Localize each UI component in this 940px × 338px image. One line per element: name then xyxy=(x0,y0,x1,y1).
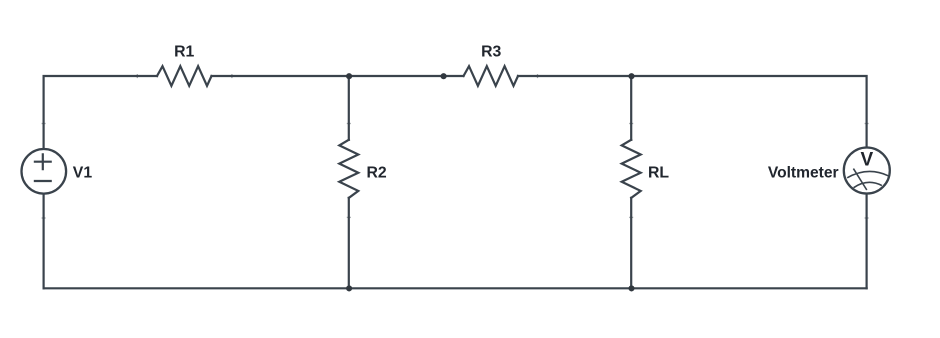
pin mark voltmeter bottom xyxy=(865,217,869,219)
voltmeter xyxy=(844,148,890,194)
node junction at RL bottom xyxy=(628,285,634,291)
svg-text:R2: R2 xyxy=(367,165,387,182)
pin mark V1 bottom xyxy=(42,217,46,219)
wire RL bottom stub xyxy=(630,198,632,288)
node junction on wire before R3 xyxy=(441,73,447,79)
svg-text:RL: RL xyxy=(648,165,669,182)
wire from R3 to voltmeter top xyxy=(518,76,867,147)
wire from bottom-left corner to V1 bottom xyxy=(42,195,44,289)
svg-text:R1: R1 xyxy=(174,44,194,61)
wire from voltmeter bottom to bottom-right corner xyxy=(865,194,867,288)
wire R2 top stub xyxy=(348,76,350,140)
svg-text:R3: R3 xyxy=(481,44,501,61)
wire from R1 to R3 xyxy=(212,75,464,77)
node junction at RL top xyxy=(628,73,634,79)
wire R2 bottom stub xyxy=(348,198,350,288)
pin mark RL top xyxy=(629,123,633,125)
svg-text:Voltmeter: Voltmeter xyxy=(768,165,839,182)
pin mark R3 right xyxy=(537,74,539,78)
resistor R3 xyxy=(464,66,519,86)
node junction at R2 top xyxy=(346,73,352,79)
wire RL top stub xyxy=(630,76,632,140)
pin mark R1 right xyxy=(231,74,233,78)
pin mark R2 top xyxy=(347,123,351,125)
svg-text:V: V xyxy=(860,149,873,170)
pin mark V1 top xyxy=(42,123,46,125)
svg-text:V1: V1 xyxy=(73,165,93,182)
pin mark R2 bottom xyxy=(347,216,351,218)
resistor RL xyxy=(622,140,641,198)
wire from V1 top to R1 left xyxy=(44,76,157,148)
voltage source V1 xyxy=(22,149,67,194)
resistor R1 xyxy=(157,66,212,86)
node junction at R2 bottom xyxy=(346,285,352,291)
pin mark voltmeter top xyxy=(865,123,869,125)
pin mark R1 left xyxy=(136,74,138,78)
bottom wire xyxy=(44,287,867,289)
pin mark RL bottom xyxy=(629,216,633,218)
resistor R2 xyxy=(339,140,358,198)
